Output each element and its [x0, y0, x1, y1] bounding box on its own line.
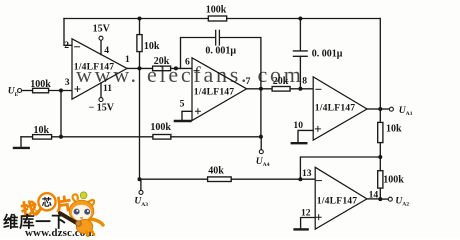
wire A2 output to 20k: [247, 88, 273, 90]
svg-text:1/4LF147: 1/4LF147: [194, 86, 235, 97]
svg-text:10k: 10k: [144, 41, 160, 52]
wire A2 feedback loop left side: [181, 38, 216, 69]
ground at A3 pin10: [298, 130, 313, 142]
svg-text:1/4LF147: 1/4LF147: [317, 195, 358, 206]
wire A1 output to 20k: [127, 67, 153, 69]
input terminal U_E: [18, 89, 22, 93]
svg-text:13: 13: [302, 168, 312, 179]
svg-text:100k: 100k: [383, 174, 404, 185]
resistor 100k divider lower: [379, 157, 381, 199]
svg-text:100k: 100k: [206, 5, 227, 16]
svg-text:0. 001μ: 0. 001μ: [205, 46, 236, 57]
resistor 10k A1 feedback vertical: [139, 19, 141, 69]
svg-text:1/4LF147: 1/4LF147: [315, 102, 356, 113]
ground symbol left: [20, 137, 22, 147]
wire top feedback bus right segment: [227, 18, 381, 20]
terminal U_A4: [259, 150, 263, 154]
wire A3 output: [367, 108, 380, 110]
wire stub to terminal U_A1: [380, 108, 389, 110]
wire bottom feedback run right: [171, 136, 261, 138]
wire A4 output: [367, 198, 380, 200]
svg-text:100k: 100k: [30, 79, 51, 90]
svg-text:40k: 40k: [208, 166, 224, 177]
svg-text:www. elecfans. com: www. elecfans. com: [76, 62, 304, 87]
wire 20k to A3 pin8: [290, 88, 313, 90]
watermark dzsc logo: [3, 192, 103, 239]
wire A2 feedback loop right side: [220, 38, 261, 89]
wire cap2 bottom lead: [299, 57, 301, 89]
resistor 20k A1-A2: [153, 66, 171, 71]
wire bottom feedback run left: [61, 136, 153, 138]
op-amp U4 1/4LF147: [315, 167, 367, 229]
wire stub to terminal U_A2: [380, 198, 388, 200]
wire divider tap feedback to A4 pin13: [300, 157, 380, 179]
ground at A4 pin12: [301, 218, 316, 229]
resistor 100k input: [33, 88, 49, 93]
pin 4 +15V supply: [100, 40, 102, 54]
wire input node vertical drop: [60, 91, 62, 137]
capacitor 0.001u A2 feedback: [216, 30, 220, 45]
svg-text:3: 3: [65, 77, 70, 88]
resistor 40k: [208, 177, 232, 182]
svg-text:5: 5: [180, 98, 185, 109]
svg-text:15V: 15V: [93, 23, 111, 34]
wire 40k to A4 pin13: [231, 178, 315, 180]
resistor 100k top feedback: [208, 16, 226, 21]
svg-text:2: 2: [64, 40, 69, 51]
svg-text:10k: 10k: [34, 125, 50, 136]
svg-text:0. 001μ: 0. 001μ: [312, 49, 343, 60]
svg-text:12: 12: [301, 207, 311, 218]
wire 20k to A2 pin6: [171, 67, 192, 69]
svg-text:− 15V: − 15V: [89, 102, 115, 113]
svg-text:10k: 10k: [386, 123, 402, 134]
op-amp U1 1/4LF147: [72, 39, 127, 99]
wire cap2 top lead: [299, 19, 301, 51]
wire right vertical drop from top bus to A3 output: [379, 19, 381, 110]
wire stub to terminal U_A4: [260, 137, 262, 150]
svg-text:14: 14: [369, 190, 379, 201]
op-amp U2 1/4LF147: [192, 58, 247, 121]
wire long vertical from A1 output node down to U_A3 node: [139, 68, 141, 179]
ground at A2 pin5: [182, 111, 192, 120]
wire stub to terminal U_A3: [140, 179, 142, 190]
svg-text:芯: 芯: [42, 196, 52, 209]
resistor 10k to ground: [21, 136, 61, 138]
junction node dots: [138, 17, 142, 21]
wire U_A3 node to 40k: [140, 178, 208, 180]
svg-text:100k: 100k: [150, 122, 171, 133]
pin 11 -15V supply: [100, 83, 102, 98]
wire 100k to A1 pin3: [49, 90, 72, 92]
svg-text:10: 10: [293, 120, 303, 131]
resistor 20k A2-A3: [272, 87, 290, 92]
resistor 100k bottom feedback: [153, 135, 171, 140]
capacitor 0.001u from top bus to pin8: [294, 51, 308, 56]
wire top feedback bus left segment: [64, 18, 208, 20]
wire input terminal to 100k: [22, 90, 33, 92]
svg-text:4: 4: [104, 45, 109, 56]
wire pin2 drop from top bus into A1 inverting input: [64, 19, 72, 46]
op-amp U3 1/4LF147: [313, 77, 367, 140]
resistor 10k divider upper: [379, 109, 381, 157]
wire A2 output node down to U_A4 node: [260, 89, 262, 137]
